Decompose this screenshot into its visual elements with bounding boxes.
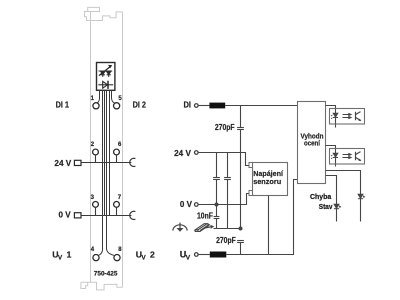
svg-text:750-425: 750-425 (94, 270, 118, 277)
optocoupler 1 box (330, 109, 365, 125)
wire to 0V row left (104, 90, 106, 215)
svg-text:10nF: 10nF (197, 212, 213, 221)
svg-text:2: 2 (150, 249, 155, 259)
24V wire (198, 153, 249, 166)
svg-text:1: 1 (91, 96, 95, 102)
Uv terminal (195, 253, 199, 257)
24V row wire (81, 162, 131, 164)
0V wire (198, 194, 249, 205)
wire to terminal 5 (112, 90, 115, 103)
Uv wire left (198, 254, 210, 256)
wire to Stav LED (326, 176, 337, 222)
diode symbol in icon box (98, 81, 113, 89)
stem terminal 2 (95, 155, 97, 163)
sensor supply left tab bottom (249, 191, 253, 196)
0V field tag (74, 213, 81, 218)
optocoupler 1 LED (331, 113, 338, 119)
resistor R2 (210, 252, 227, 258)
module outline 750-425 top profile (84, 7, 122, 20)
terminal 3 (93, 202, 99, 208)
capacitor C2 (213, 153, 220, 205)
terminal 6 (114, 149, 120, 155)
internal wire bundle (97, 90, 115, 255)
svg-text:Stav: Stav (319, 202, 333, 211)
stem terminal 6 (116, 155, 118, 163)
svg-text:0 V: 0 V (59, 209, 71, 219)
module bottom profile / DIN foot (81, 282, 123, 290)
24V terminal (195, 151, 199, 155)
wire to terminal 8 (107, 90, 114, 255)
svg-text:8: 8 (118, 247, 122, 253)
stem terminal 3 (95, 207, 97, 215)
terminal 2 (93, 149, 99, 155)
resistor R1 (209, 103, 225, 109)
24V field tag (74, 160, 81, 165)
wire to optocoupler 1 (326, 106, 336, 128)
svg-text:V: V (186, 254, 191, 261)
wire to terminal 1 (97, 90, 100, 103)
terminal 1 (93, 103, 99, 109)
svg-text:24 V: 24 V (174, 148, 191, 158)
sensor supply left tab top (249, 163, 253, 168)
DIN rail symbol (195, 224, 214, 232)
svg-text:Chyba: Chyba (310, 192, 332, 201)
node earth junction (239, 227, 243, 231)
terminal 5 (114, 103, 120, 109)
module right edge (122, 12, 124, 287)
terminal 8 (114, 255, 120, 261)
svg-text:7: 7 (118, 195, 122, 201)
optocoupler 2 LED (331, 153, 338, 159)
svg-text:V: V (141, 254, 146, 261)
evaluation box (298, 102, 326, 184)
LED Stav (334, 204, 341, 208)
capacitor C1 270pF (237, 106, 244, 229)
capacitor C4 10nF (214, 205, 220, 229)
sensor supply bottom wire (268, 196, 270, 255)
LED Chyba (358, 194, 365, 198)
svg-text:senzoru: senzoru (253, 177, 281, 186)
svg-text:270pF: 270pF (216, 236, 236, 245)
sensor supply box (253, 163, 288, 196)
svg-text:6: 6 (118, 142, 122, 148)
svg-text:DI 2: DI 2 (133, 99, 147, 109)
svg-text:ocení: ocení (304, 139, 321, 148)
wire to terminal 4 (99, 90, 103, 255)
icon box U1 (97, 63, 115, 91)
optocoupler 1 coupling arrows (343, 113, 353, 120)
DI wire (198, 105, 209, 107)
svg-text:24 V: 24 V (54, 158, 71, 168)
capacitor C5 270pF bottom (237, 241, 244, 255)
terminal 7 (114, 202, 120, 208)
0V jumper contact hook (130, 211, 136, 219)
svg-text:DI: DI (184, 99, 192, 109)
svg-text:DI 1: DI 1 (56, 99, 70, 109)
svg-text:2: 2 (91, 142, 95, 148)
0V terminal (195, 203, 199, 207)
status LED pair symbol (99, 65, 113, 77)
wire to optocoupler 2 (326, 146, 336, 167)
optocoupler 1 phototransistor (356, 112, 362, 121)
0V row wire (81, 215, 131, 217)
svg-text:0 V: 0 V (180, 199, 192, 209)
terminal 4 (93, 255, 99, 261)
module left edge (90, 21, 92, 283)
wire R1 to evaluation box (225, 105, 297, 107)
DI terminal (195, 104, 199, 108)
optocoupler 2 phototransistor (356, 152, 362, 161)
svg-text:3: 3 (91, 195, 95, 201)
svg-text:270pF: 270pF (215, 123, 235, 132)
optocoupler 2 coupling arrows (343, 153, 353, 160)
earth wire (214, 228, 241, 230)
optocoupler 2 box (330, 149, 365, 165)
svg-text:1: 1 (67, 249, 72, 259)
svg-text:4: 4 (91, 247, 95, 253)
wire to 0V row right (109, 90, 111, 215)
wire to Chyba LED (326, 171, 361, 222)
24V jumper contact hook (130, 158, 136, 166)
capacitor C3 (224, 153, 231, 229)
svg-text:V: V (58, 254, 63, 261)
earth symbol (173, 223, 187, 232)
svg-text:5: 5 (118, 96, 122, 102)
Uv wire right (226, 180, 297, 255)
node 0V junction (215, 203, 219, 207)
stem terminal 7 (116, 207, 118, 215)
